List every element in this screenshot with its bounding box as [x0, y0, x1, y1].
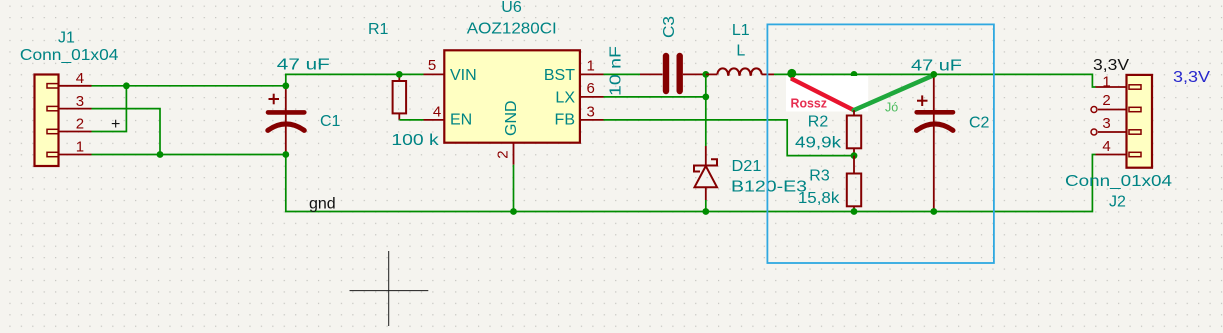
svg-text:LX: LX — [555, 89, 575, 106]
svg-text:C2: C2 — [969, 115, 990, 132]
pin 3 FB — [580, 104, 604, 121]
svg-text:4: 4 — [76, 70, 84, 87]
svg-text:Conn_01x04: Conn_01x04 — [20, 47, 119, 64]
junction LX — [702, 94, 709, 101]
svg-text:6: 6 — [587, 80, 595, 97]
junction C2 top — [930, 71, 937, 78]
wire LX node vertical — [705, 74, 707, 146]
annotation green line Jo — [854, 75, 934, 110]
svg-text:D21: D21 — [732, 158, 762, 175]
svg-text:R2: R2 — [808, 114, 829, 131]
svg-text:2: 2 — [495, 150, 512, 158]
junction IC GND at rail — [510, 208, 517, 215]
junction J1 pin1/pin3 — [157, 151, 164, 158]
svg-text:R3: R3 — [809, 168, 830, 185]
svg-text:1: 1 — [587, 58, 595, 75]
capacitor C2 — [911, 57, 990, 211]
svg-text:100 k: 100 k — [391, 132, 440, 149]
wire FB to divider — [604, 120, 855, 156]
svg-text:1: 1 — [76, 139, 84, 156]
junction R2/R3 FB node — [851, 152, 858, 159]
pin 4 EN — [424, 104, 445, 121]
pin 1 BST — [580, 58, 604, 75]
resistor R3 — [798, 156, 861, 212]
wire J1 pin4 to VIN node — [92, 85, 286, 87]
junction D21 anode at gnd — [702, 208, 709, 215]
resistor R2 — [795, 110, 861, 155]
wire GND pin to gnd rail — [513, 165, 515, 212]
capacitor C1 — [268, 57, 341, 155]
connector J1 — [20, 30, 119, 167]
svg-text:B120-E3: B120-E3 — [731, 178, 807, 195]
junction divider tap (half covered) — [851, 71, 858, 78]
annotation red line Rossz — [793, 79, 854, 110]
svg-text:Rossz: Rossz — [791, 96, 828, 110]
svg-text:3,3V: 3,3V — [1173, 69, 1210, 86]
annotation white backdrop — [786, 76, 868, 112]
junction C1 top — [282, 82, 289, 89]
junction J1 pin4/pin2 — [123, 82, 130, 89]
svg-text:EN: EN — [450, 112, 472, 129]
wire LX to LX node — [604, 96, 706, 98]
pin 2 GND — [495, 143, 514, 165]
svg-text:3: 3 — [1102, 115, 1110, 132]
resistor R1 — [368, 21, 440, 149]
capacitor C3 — [608, 16, 706, 96]
svg-text:2: 2 — [1102, 92, 1110, 109]
pin 6 LX — [580, 80, 604, 97]
crosshair cursor — [350, 251, 429, 326]
wire BST to C3 — [604, 73, 641, 75]
svg-text:U6: U6 — [501, 0, 522, 16]
svg-text:3,3V: 3,3V — [1093, 57, 1129, 74]
svg-text:VIN: VIN — [450, 67, 477, 84]
svg-text:3: 3 — [587, 104, 595, 121]
diode D21 — [694, 146, 807, 212]
svg-text:47 uF: 47 uF — [277, 57, 330, 74]
svg-text:5: 5 — [428, 57, 436, 74]
svg-text:3: 3 — [76, 93, 84, 110]
svg-text:1: 1 — [1102, 74, 1110, 91]
svg-text:10 nF: 10 nF — [608, 46, 625, 96]
svg-text:GND: GND — [503, 100, 520, 136]
svg-text:Jó: Jó — [885, 100, 898, 114]
wire J1 pin2 up to pin4 net — [92, 86, 127, 132]
highlight box (blue) — [767, 24, 994, 263]
junction R3 at gnd — [851, 208, 858, 215]
svg-text:15,8k: 15,8k — [798, 190, 841, 207]
svg-text:Conn_01x04: Conn_01x04 — [1065, 173, 1172, 190]
svg-text:L1: L1 — [732, 22, 750, 39]
wire R1 to EN — [399, 119, 423, 121]
svg-text:47 uF: 47 uF — [911, 57, 962, 74]
svg-text:J1: J1 — [58, 30, 75, 47]
wire output rail — [792, 74, 1096, 87]
svg-text:AOZ1280CI: AOZ1280CI — [467, 20, 557, 37]
svg-text:+: + — [111, 116, 120, 133]
svg-text:C1: C1 — [320, 113, 341, 130]
svg-text:2: 2 — [76, 116, 84, 133]
svg-text:J2: J2 — [1109, 194, 1126, 211]
junction C2 bottom — [930, 208, 937, 215]
junction C1 bottom — [282, 151, 289, 158]
wire J1 pin1 to C1 bottom — [92, 154, 286, 156]
svg-text:49,9k: 49,9k — [795, 135, 842, 152]
wire gnd from C1 down and along bottom rail to J2 pin4 — [286, 155, 1096, 212]
svg-text:C3: C3 — [661, 16, 678, 38]
svg-text:4: 4 — [433, 104, 441, 121]
wire J1 pin3 down to pin1 net — [92, 109, 161, 155]
connector J2 — [1065, 57, 1172, 211]
junction C3 out / L1 — [702, 71, 709, 78]
pin 5 VIN — [424, 57, 445, 74]
svg-text:L: L — [736, 43, 745, 60]
junction R1 top — [396, 71, 403, 78]
svg-text:BST: BST — [544, 67, 575, 84]
wire VIN rail up-step and to R1/VIN — [286, 74, 424, 85]
inductor L1 — [706, 22, 774, 76]
op-amp U6 AOZ1280CI body — [444, 0, 580, 143]
wire L1 to output node — [774, 73, 792, 75]
svg-text:4: 4 — [1102, 138, 1110, 155]
junction output at L1 (over backdrop) — [787, 69, 796, 78]
svg-text:FB: FB — [555, 112, 575, 129]
svg-text:gnd: gnd — [309, 196, 336, 213]
svg-text:R1: R1 — [368, 21, 389, 38]
